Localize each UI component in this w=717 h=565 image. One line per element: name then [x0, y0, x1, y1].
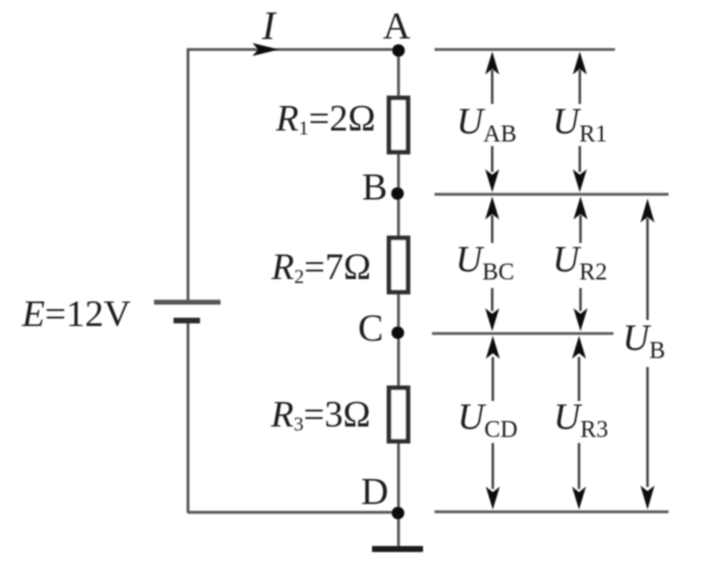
svg-text:A: A [383, 6, 411, 48]
arrow UR2 down [579, 288, 582, 311]
svg-text:I: I [261, 3, 277, 48]
wire: left vertical lower (battery - to bottom) [187, 321, 190, 513]
arrow UBC up [491, 215, 494, 243]
wire: top horizontal from battery to node A [188, 48, 398, 51]
arrow UR1 up [579, 70, 582, 104]
arrow UR1 down [579, 146, 582, 172]
arrow UR3 up [578, 357, 581, 401]
svg-text:R1=2Ω: R1=2Ω [275, 99, 375, 140]
node C [392, 326, 405, 339]
arrow UAB up [485, 52, 654, 510]
level line D [435, 510, 669, 513]
svg-text:R3=3Ω: R3=3Ω [270, 395, 370, 436]
resistor R1 [389, 98, 408, 152]
arrow UCD up [492, 357, 495, 401]
current arrow I on top wire [253, 43, 280, 56]
node A [392, 44, 405, 57]
resistor R3 [389, 388, 408, 441]
node D [392, 507, 405, 520]
battery E: long plate [154, 300, 221, 305]
resistor R2 [389, 238, 408, 292]
arrow UR2 up [579, 215, 582, 243]
main vertical wire segments [397, 50, 400, 96]
svg-text:R2=7Ω: R2=7Ω [271, 247, 371, 288]
arrow UCD down [492, 443, 495, 489]
battery E: short plate [174, 318, 201, 324]
svg-text:E=12V: E=12V [21, 294, 131, 335]
level line B [435, 193, 669, 196]
svg-text:B: B [362, 167, 387, 209]
arrow UB long, up head at B line [646, 218, 649, 320]
svg-text:D: D [361, 471, 388, 513]
arrow UBC down [491, 288, 494, 311]
svg-text:C: C [358, 308, 383, 350]
arrow UB long, down head at D line [646, 367, 649, 487]
node B [391, 187, 404, 200]
arrow UAB down [491, 146, 494, 172]
wire: node D down to ground [397, 513, 400, 546]
arrow UR3 down [578, 443, 581, 489]
wire: left vertical upper (battery + to top) [187, 48, 190, 300]
level line A [435, 48, 616, 51]
level line C [432, 332, 614, 335]
wire: bottom horizontal from battery to node D [188, 511, 398, 514]
ground [372, 546, 423, 552]
